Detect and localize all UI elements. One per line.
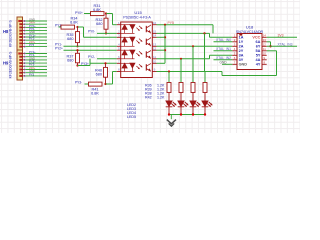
wire emitter tie vertical — [164, 25, 166, 64]
wire R34 node to U15 pin 3 — [78, 26, 84, 28]
svg-text:1.2K: 1.2K — [157, 96, 165, 100]
svg-text:PY2-: PY2- — [88, 55, 95, 59]
pin 9 of U18 — [262, 59, 267, 61]
svg-text:XTAL_IN2: XTAL_IN2 — [216, 56, 231, 60]
wire stub pin 7 of H8 — [26, 39, 48, 41]
node emitter2 — [164, 36, 166, 38]
pin 2 of U15 — [117, 32, 121, 34]
wire emitter1 PY5 net — [157, 24, 214, 26]
LED LED2 — [166, 101, 173, 107]
node R37 bottom — [76, 64, 78, 66]
LED LED3 — [178, 101, 185, 107]
opto channel 2 LED pair of U15 — [121, 36, 135, 38]
pin 4 of H8 — [19, 30, 22, 32]
svg-text:13: 13 — [263, 38, 267, 42]
svg-text:PY3+: PY3+ — [81, 62, 89, 66]
opto channel 3 phototransistor of U15 — [145, 51, 147, 57]
wire stub pin 7 of H9 — [26, 72, 48, 74]
node collector2 to R38 column — [192, 45, 194, 47]
pin 7 of U18 — [232, 63, 237, 65]
svg-text:14: 14 — [153, 34, 157, 38]
svg-text:VCC: VCC — [252, 36, 260, 40]
wire stub pin 5 of H9 — [26, 65, 48, 67]
pin 10 of U15 — [152, 62, 156, 64]
pin 10 of U18 — [262, 54, 267, 56]
LED LED5 arrows — [207, 103, 210, 106]
svg-text:14: 14 — [263, 34, 267, 38]
wire LED cathode rail — [169, 114, 205, 116]
svg-text:XTAL_IN3: XTAL_IN3 — [278, 43, 293, 47]
pin 5 of H8 — [19, 33, 22, 35]
resistor R36 — [167, 83, 171, 93]
pin 4 of H9 — [19, 62, 22, 64]
pin 4 of U15 — [117, 45, 121, 47]
svg-text:6.8K: 6.8K — [70, 21, 78, 25]
wire stub pin 1 of H9 — [26, 53, 48, 55]
svg-text:KF2EDGVB-9P-S: KF2EDGVB-9P-S — [9, 19, 13, 46]
node collector1 to R42 column — [203, 32, 205, 34]
opto channel 3 light arrows of U15 — [136, 53, 139, 56]
node after R31 — [105, 12, 107, 14]
wire XTAL_IN2 at U18 3Y — [214, 59, 233, 61]
pin 3 of H8 — [19, 26, 22, 28]
wire stub pin 3 of H8 — [26, 26, 48, 28]
svg-text:10: 10 — [153, 60, 157, 64]
node collector3 to R39 column — [180, 58, 182, 60]
svg-text:2Y: 2Y — [239, 49, 244, 53]
node R40 top — [104, 62, 106, 64]
wire PY0- to U15 pin 2 — [97, 32, 117, 34]
LED LED4 — [190, 101, 197, 107]
svg-text:XTAL_IN1: XTAL_IN1 — [216, 47, 231, 51]
resistor R37 — [77, 50, 79, 53]
wire XTAL_IN0 at U18 1Y — [214, 41, 233, 43]
pin 13 of U18 — [262, 41, 267, 43]
svg-text:1Y: 1Y — [239, 40, 244, 44]
node LED LED4 rail — [192, 113, 194, 115]
wire collector1 to U18 1A — [157, 32, 210, 34]
wire collector2 to U18 2A — [157, 45, 233, 47]
svg-text:6.8K: 6.8K — [93, 8, 101, 12]
wire R39 column drop — [180, 59, 182, 83]
wire stub pin 1 of H8 — [26, 20, 48, 22]
pin 7 of H8 — [19, 39, 22, 41]
wire VCC from U18 pin 14 — [267, 36, 297, 38]
pin 8 of U18 — [262, 63, 267, 65]
svg-text:4A: 4A — [256, 58, 261, 62]
svg-text:GND: GND — [220, 61, 228, 65]
svg-text:PY5: PY5 — [168, 21, 175, 25]
pin 12 of U15 — [152, 49, 156, 51]
svg-text:3Y: 3Y — [239, 58, 244, 62]
pin 8 of H9 — [19, 75, 22, 77]
svg-text:PY0-: PY0- — [88, 29, 95, 33]
wire PY2+ to U15 pin 5 — [64, 49, 117, 51]
op-amp U15 box — [121, 22, 153, 78]
opto channel 4 LED pair of U15 — [121, 62, 135, 64]
wire stub pin 3 of H9 — [26, 59, 48, 61]
wire PY3+ to U15 pin 7 — [90, 62, 117, 64]
node after R34 — [76, 26, 78, 28]
pin 1 of U15 — [117, 24, 121, 26]
wire PY0+ to R31 — [84, 13, 91, 15]
pin 3 of U18 — [232, 45, 237, 47]
wire R41 node to U15 pin 8 — [106, 83, 113, 85]
resistor R39 — [179, 83, 183, 93]
pin 9 of U15 — [152, 71, 156, 73]
pin 6 of H9 — [19, 69, 22, 71]
resistor R32 — [105, 14, 107, 19]
svg-text:4Y: 4Y — [256, 63, 261, 67]
wire stub pin 2 of H9 — [26, 56, 48, 58]
svg-text:LED5: LED5 — [127, 115, 136, 119]
opto channel 3 LED pair of U15 — [121, 49, 135, 51]
svg-text:680: 680 — [96, 22, 102, 26]
svg-text:PS2805C-4-F3-A: PS2805C-4-F3-A — [123, 16, 151, 20]
pin 1 of H9 — [19, 53, 22, 55]
ground — [170, 115, 172, 120]
wire stub pin 6 of H9 — [26, 69, 48, 71]
pin 5 of U18 — [232, 54, 237, 56]
svg-text:R42: R42 — [145, 96, 152, 100]
wire stub pin 6 of H8 — [26, 36, 48, 38]
node emitter1 — [164, 24, 166, 26]
node LED LED3 rail — [180, 113, 182, 115]
svg-text:5Y: 5Y — [256, 54, 261, 58]
pin 6 of U15 — [117, 58, 121, 60]
wire R38 column drop — [192, 46, 194, 82]
op-amp U18 box — [237, 34, 262, 70]
svg-text:PY5: PY5 — [29, 72, 35, 76]
wire stub pin 2 of H8 — [26, 23, 48, 25]
node R40/R41 junction — [104, 83, 106, 85]
pin 2 of U18 — [232, 41, 237, 43]
wire 6A to XTAL_IN3 net — [267, 41, 271, 43]
pin 1 of H8 — [19, 20, 22, 22]
LED LED5 — [202, 101, 209, 107]
connector H9 — [17, 50, 23, 80]
pin 14 of U18 — [262, 36, 267, 38]
svg-text:SN74LVC14ADR: SN74LVC14ADR — [236, 30, 264, 34]
svg-text:PY3-: PY3- — [75, 80, 82, 84]
pin 11 of U18 — [262, 50, 267, 52]
pin 9 of H8 — [19, 46, 22, 48]
wire stub pin 9 of H8 — [26, 46, 48, 48]
svg-text:1A: 1A — [239, 36, 244, 40]
pin 8 of H8 — [19, 42, 22, 44]
svg-text:GND: GND — [239, 63, 248, 67]
wire stub pin 8 of H8 — [26, 42, 48, 44]
LED LED3 arrows — [183, 103, 186, 106]
svg-text:12: 12 — [153, 46, 157, 50]
wire collector4 rail — [157, 71, 223, 73]
svg-text:6A: 6A — [256, 40, 261, 44]
pin 2 of H9 — [19, 56, 22, 58]
svg-text:PY0+: PY0+ — [75, 11, 83, 15]
connector H8 — [17, 17, 23, 50]
opto channel 1 phototransistor of U15 — [145, 26, 147, 32]
wire PY1+ to R34 — [59, 26, 62, 28]
pin 11 of U15 — [152, 58, 156, 60]
svg-text:PY2+: PY2+ — [55, 47, 63, 51]
opto channel 2 phototransistor of U15 — [145, 39, 147, 45]
svg-text:680: 680 — [96, 73, 102, 77]
pin 3 of U15 — [117, 36, 121, 38]
wire PY1- to U15 pin 4 — [64, 45, 117, 47]
wire collector4 to U18 5A routing — [221, 72, 223, 76]
opto channel 4 light arrows of U15 — [136, 66, 139, 69]
svg-text:16: 16 — [153, 21, 157, 25]
svg-text:PY5: PY5 — [29, 43, 35, 47]
svg-text:680: 680 — [67, 59, 73, 63]
U18 gate mark — [239, 34, 242, 36]
svg-text:U15: U15 — [134, 10, 142, 15]
opto channel 4 phototransistor of U15 — [145, 64, 147, 70]
svg-text:U18: U18 — [246, 25, 254, 30]
svg-text:11: 11 — [263, 47, 266, 51]
pin 5 of U15 — [117, 49, 121, 51]
resistor R38 — [191, 83, 195, 93]
resistor R40 — [105, 63, 107, 67]
LED LED2 arrows — [171, 103, 174, 106]
pin 8 of U15 — [117, 71, 121, 73]
resistor R34 — [61, 25, 75, 29]
wire stub pin 8 of H9 — [26, 75, 48, 77]
wire stub pin 5 of H8 — [26, 33, 48, 35]
node R32 bottom — [105, 32, 107, 34]
wire R36 column drop — [168, 72, 170, 83]
wire GND at U18 pin 7 — [222, 63, 232, 65]
svg-text:10: 10 — [263, 52, 267, 56]
resistor R41 — [89, 82, 103, 86]
resistor R35 — [77, 27, 79, 32]
pin 2 of H8 — [19, 23, 22, 25]
wire PY3- to R41 — [85, 83, 89, 85]
node LED LED5 rail — [204, 113, 206, 115]
svg-text:KF2EDGVB-8P-S: KF2EDGVB-8P-S — [9, 51, 13, 78]
pin 12 of U18 — [262, 45, 267, 47]
node LED LED2 rail — [168, 113, 170, 115]
pin 6 of H8 — [19, 36, 22, 38]
opto channel 1 light arrows of U15 — [136, 28, 139, 31]
svg-text:2A: 2A — [239, 45, 244, 49]
pin 6 of U18 — [232, 59, 237, 61]
wire collector3 to U18 3A — [157, 58, 210, 60]
node R37 top — [76, 49, 78, 51]
pin 16 of U15 — [152, 24, 156, 26]
node emitter3 — [164, 49, 166, 51]
wire emitter4 stub — [157, 62, 166, 64]
wire emitter2 stub — [157, 36, 166, 38]
LED LED4 arrows — [195, 103, 198, 106]
wire emitter3 stub — [157, 49, 166, 51]
svg-text:3V3: 3V3 — [278, 34, 284, 38]
wire stub pin 4 of H9 — [26, 62, 48, 64]
svg-text:3A: 3A — [239, 54, 244, 58]
svg-text:680: 680 — [67, 37, 73, 41]
svg-text:6Y: 6Y — [256, 45, 261, 49]
wire R37 bottom return — [78, 65, 91, 67]
pin 7 of H9 — [19, 72, 22, 74]
wire R31 node to U15 pin 1 — [106, 13, 113, 15]
pin 1 of U18 — [232, 36, 237, 38]
pin 14 of U15 — [152, 36, 156, 38]
svg-text:5A: 5A — [256, 49, 261, 53]
wire XTAL_IN3 from U18 6Y — [267, 45, 297, 47]
opto channel 1 LED pair of U15 — [121, 24, 135, 26]
svg-text:XTAL_IN0: XTAL_IN0 — [216, 38, 231, 42]
wire PY2- to U15 pin 6 — [97, 58, 117, 60]
node collector4 to R36 column — [168, 70, 170, 72]
svg-text:12: 12 — [263, 43, 267, 47]
resistor R31 — [91, 12, 105, 16]
pin 3 of H9 — [19, 59, 22, 61]
pin 5 of H9 — [19, 65, 22, 67]
pin 15 of U15 — [152, 32, 156, 34]
wire stub pin 4 of H8 — [26, 30, 48, 32]
pin 7 of U15 — [117, 62, 121, 64]
wire XTAL_IN1 at U18 2Y — [214, 50, 233, 52]
wire PY5 drop to collector1 — [212, 25, 214, 34]
resistor R42 — [203, 83, 207, 93]
svg-text:11: 11 — [153, 55, 156, 59]
pin 13 of U15 — [152, 45, 156, 47]
svg-text:6.8K: 6.8K — [91, 91, 99, 95]
pin 4 of U18 — [232, 50, 237, 52]
opto channel 2 light arrows of U15 — [136, 40, 139, 43]
node XTAL_IN3 junction — [269, 45, 271, 47]
wire R42 column drop — [204, 33, 206, 71]
node R35 bottom — [76, 45, 78, 47]
